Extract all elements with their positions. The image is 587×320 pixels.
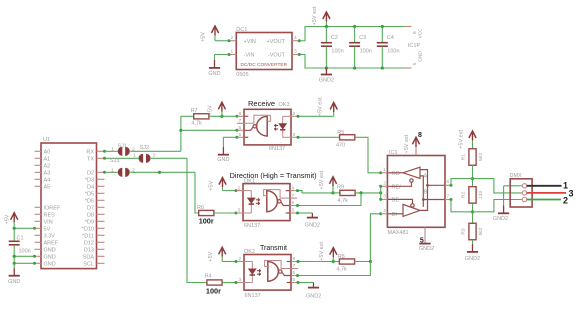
svg-text:3: 3 <box>239 277 242 283</box>
svg-text:AREF: AREF <box>44 240 59 246</box>
svg-text:RES: RES <box>44 212 56 218</box>
svg-text:Transmit: Transmit <box>260 245 287 252</box>
svg-text:2: 2 <box>293 111 296 117</box>
svg-text:7: 7 <box>293 263 296 269</box>
svg-text:5: 5 <box>292 208 295 214</box>
svg-text:C1: C1 <box>17 235 24 241</box>
svg-text:GND: GND <box>217 157 229 163</box>
svg-text:+5V: +5V <box>208 181 214 191</box>
svg-text:470: 470 <box>336 143 345 149</box>
svg-text:*D9: *D9 <box>85 219 94 225</box>
svg-text:4,7k: 4,7k <box>191 121 202 127</box>
svg-text:3: 3 <box>294 49 297 55</box>
svg-text:SDA: SDA <box>83 254 95 260</box>
svg-text:3: 3 <box>569 188 574 198</box>
svg-text:D4: D4 <box>87 184 94 190</box>
svg-text:TX: TX <box>87 156 94 162</box>
svg-text:+5V ext: +5V ext <box>312 6 318 25</box>
svg-text:D7: D7 <box>87 205 94 211</box>
svg-text:100r: 100r <box>199 217 214 226</box>
svg-text:GND: GND <box>8 279 20 285</box>
svg-text:R7: R7 <box>191 108 198 114</box>
svg-text:*D6: *D6 <box>85 198 94 204</box>
svg-text:5: 5 <box>412 62 418 65</box>
svg-text:D8: D8 <box>87 212 94 218</box>
svg-text:R6: R6 <box>197 205 204 211</box>
svg-text:3: 3 <box>293 132 296 138</box>
svg-text:4,7k: 4,7k <box>338 198 349 204</box>
svg-text:2: 2 <box>239 256 242 262</box>
svg-text:GND: GND <box>44 254 56 260</box>
svg-text:GND2: GND2 <box>305 222 320 228</box>
svg-text:100r: 100r <box>206 287 221 296</box>
svg-text:5V: 5V <box>44 226 51 232</box>
svg-text:4: 4 <box>294 35 297 41</box>
svg-text:+5V: +5V <box>208 251 214 261</box>
svg-text:4: 4 <box>383 208 386 214</box>
svg-text:1: 1 <box>133 152 136 158</box>
svg-text:A1: A1 <box>44 156 51 162</box>
svg-text:C3: C3 <box>359 35 366 41</box>
svg-text:0505: 0505 <box>236 72 248 78</box>
svg-text:100n: 100n <box>331 49 343 55</box>
svg-text:SCL: SCL <box>83 261 94 267</box>
svg-text:IC1: IC1 <box>389 150 398 156</box>
svg-text:OK3: OK3 <box>279 102 290 108</box>
svg-text:6N137: 6N137 <box>269 146 285 152</box>
svg-text:+VOUT: +VOUT <box>267 39 286 45</box>
svg-text:A4: A4 <box>44 177 51 183</box>
svg-text:1: 1 <box>383 167 386 173</box>
svg-text:RE/: RE/ <box>392 184 402 190</box>
svg-text:3.3V: 3.3V <box>44 233 56 239</box>
svg-text:SJ3: SJ3 <box>110 158 119 164</box>
svg-text:2: 2 <box>238 185 241 191</box>
svg-text:*D5: *D5 <box>85 191 94 197</box>
svg-text:*D10: *D10 <box>82 226 94 232</box>
svg-text:7: 7 <box>239 118 242 124</box>
svg-text:+VIN: +VIN <box>244 39 256 45</box>
svg-text:R8: R8 <box>338 254 345 260</box>
svg-text:6: 6 <box>292 200 295 206</box>
svg-text:C4: C4 <box>387 35 394 41</box>
svg-text:OK2: OK2 <box>244 249 255 255</box>
svg-text:A3: A3 <box>44 170 51 176</box>
svg-text:OK1: OK1 <box>244 179 255 185</box>
svg-text:2: 2 <box>153 152 156 158</box>
svg-text:+5V ext: +5V ext <box>319 170 325 189</box>
svg-text:-VOUT: -VOUT <box>268 53 286 59</box>
svg-text:SJ1: SJ1 <box>118 143 127 149</box>
svg-text:562: 562 <box>478 153 484 161</box>
svg-text:IC1P: IC1P <box>408 43 421 49</box>
svg-text:8: 8 <box>292 185 295 191</box>
svg-text:MAX481: MAX481 <box>388 230 409 236</box>
svg-text:GND: GND <box>418 51 424 62</box>
svg-text:A0: A0 <box>44 149 51 155</box>
svg-text:6: 6 <box>293 270 296 276</box>
svg-text:GND2: GND2 <box>319 78 334 84</box>
svg-text:R1: R1 <box>461 154 467 160</box>
svg-text:DMX: DMX <box>510 173 523 179</box>
svg-text:DC1: DC1 <box>236 27 247 33</box>
svg-text:-VIN: -VIN <box>244 53 255 59</box>
svg-text:100n: 100n <box>387 49 399 55</box>
svg-text:GND2: GND2 <box>465 256 480 262</box>
svg-text:R2: R2 <box>461 192 467 198</box>
svg-text:6: 6 <box>447 179 450 185</box>
svg-text:7: 7 <box>292 193 295 199</box>
svg-text:6N137: 6N137 <box>245 293 261 299</box>
svg-text:2: 2 <box>231 35 234 41</box>
svg-text:100n: 100n <box>19 248 31 254</box>
svg-text:RO: RO <box>392 171 401 177</box>
svg-text:3: 3 <box>383 193 386 199</box>
svg-text:GND2: GND2 <box>419 246 434 252</box>
svg-text:8: 8 <box>293 256 296 262</box>
svg-text:100n: 100n <box>360 49 372 55</box>
svg-text:Receive: Receive <box>248 99 275 108</box>
svg-text:2: 2 <box>563 196 568 206</box>
svg-text:1: 1 <box>231 49 234 55</box>
svg-text:+5V ext: +5V ext <box>404 134 410 153</box>
svg-text:6N137: 6N137 <box>244 223 260 229</box>
svg-text:GND: GND <box>44 261 56 267</box>
svg-text:133: 133 <box>478 191 484 199</box>
svg-text:1: 1 <box>563 181 568 191</box>
svg-text:D2: D2 <box>87 170 94 176</box>
svg-text:SJ2: SJ2 <box>140 145 149 151</box>
svg-text:A2: A2 <box>44 163 51 169</box>
svg-text:GND2: GND2 <box>306 293 321 299</box>
svg-text:+5V: +5V <box>208 105 214 115</box>
svg-text:7: 7 <box>447 193 450 199</box>
svg-text:8: 8 <box>239 111 242 117</box>
svg-text:2: 2 <box>383 180 386 186</box>
svg-text:D13: D13 <box>84 247 94 253</box>
svg-text:8: 8 <box>418 132 422 139</box>
svg-text:DE: DE <box>392 197 400 203</box>
svg-text:R4: R4 <box>205 273 212 279</box>
svg-text:+5V: +5V <box>201 32 207 42</box>
svg-text:GND: GND <box>44 247 56 253</box>
svg-text:4,7k: 4,7k <box>336 266 347 272</box>
svg-text:+5V ext: +5V ext <box>458 130 464 149</box>
svg-text:*D11: *D11 <box>82 233 94 239</box>
svg-text:+5V: +5V <box>4 214 10 224</box>
svg-text:GND2: GND2 <box>493 216 508 222</box>
svg-text:8: 8 <box>412 31 418 34</box>
svg-text:+5V ext: +5V ext <box>318 97 324 116</box>
svg-text:A: A <box>423 173 427 179</box>
svg-text:5: 5 <box>239 132 242 138</box>
svg-text:5: 5 <box>293 277 296 283</box>
svg-text:DI: DI <box>392 212 398 218</box>
svg-text:6: 6 <box>239 125 242 131</box>
svg-text:562: 562 <box>478 227 484 235</box>
svg-text:U1: U1 <box>43 137 50 143</box>
svg-text:VCC: VCC <box>418 28 424 39</box>
svg-text:3: 3 <box>238 208 241 214</box>
svg-text:RX: RX <box>86 149 94 155</box>
svg-text:*D3: *D3 <box>85 177 94 183</box>
svg-text:R9: R9 <box>337 185 344 191</box>
svg-text:IOREF: IOREF <box>44 205 61 211</box>
svg-text:D12: D12 <box>84 240 94 246</box>
svg-text:A5: A5 <box>44 184 51 190</box>
svg-text:VIN: VIN <box>44 219 53 225</box>
svg-text:+5V ext: +5V ext <box>319 242 325 261</box>
svg-text:GND: GND <box>208 71 220 77</box>
svg-text:Direction (High = Transmit): Direction (High = Transmit) <box>230 171 317 180</box>
svg-text:R3: R3 <box>461 228 467 234</box>
svg-text:DC/DC CONVERTER: DC/DC CONVERTER <box>241 62 288 68</box>
svg-text:R5: R5 <box>337 130 344 136</box>
svg-text:C2: C2 <box>331 35 338 41</box>
